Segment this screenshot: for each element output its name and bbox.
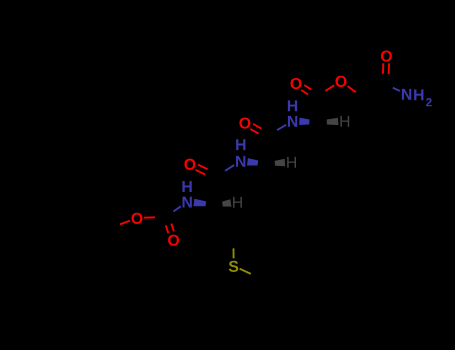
atom O terminal amide [381, 50, 392, 61]
bond carbamate C to N1 [173, 206, 180, 211]
bond amide1 C to N2 [225, 165, 234, 171]
stereo H residue2 [287, 157, 296, 168]
wedge Met alpha-C to stereo H [222, 199, 231, 206]
double bond amide2 C=O [253, 124, 261, 129]
bond Met side-chain CH2 to S [233, 248, 235, 258]
wedge residue3 alpha-C to stereo H [327, 118, 339, 125]
atom O amide2 [239, 117, 250, 128]
double bond amide1 C=O [198, 165, 208, 170]
wedge residue2 alpha-C to stereo H [275, 159, 286, 166]
bond S to S-methyl [240, 269, 251, 274]
atom H on N2 [236, 139, 245, 150]
atom H on N3 [288, 100, 297, 111]
wedge N1 to Met alpha-C [194, 199, 207, 207]
double bond glycolate ester C=O [304, 85, 311, 90]
bond benzyl-CH2 to carbamate ester O [120, 221, 130, 225]
atom O ester carbonyl [291, 78, 302, 89]
atom S [229, 261, 238, 272]
stereo H on Met alpha-C [233, 197, 242, 208]
terminal NH2 group [402, 89, 411, 100]
atom O amide1 [184, 159, 195, 170]
atom N1 [183, 197, 192, 208]
atom N3 [288, 116, 297, 127]
bond ester O to glycolamide CH2 [348, 86, 356, 92]
wedge N2 to residue2 alpha-C [247, 158, 258, 165]
atom O ester [336, 76, 347, 87]
atom O carbamate carbonyl [168, 235, 179, 246]
double bond terminal amide C=O [388, 63, 390, 74]
atom N2 [236, 156, 245, 167]
wedge N3 to residue3 alpha-C [299, 118, 309, 125]
atom O carbamate ester [132, 213, 143, 224]
atom H on N1 [182, 181, 191, 192]
bond carbamate ester O to carbamate C [144, 216, 155, 218]
bond terminal amide C to NH2 [393, 88, 400, 91]
bond ester C to ester O [325, 85, 334, 91]
bond amide2 C to N3 [277, 125, 286, 130]
stereo H residue3 [340, 116, 349, 127]
double bond carbamate C=O [166, 225, 169, 233]
